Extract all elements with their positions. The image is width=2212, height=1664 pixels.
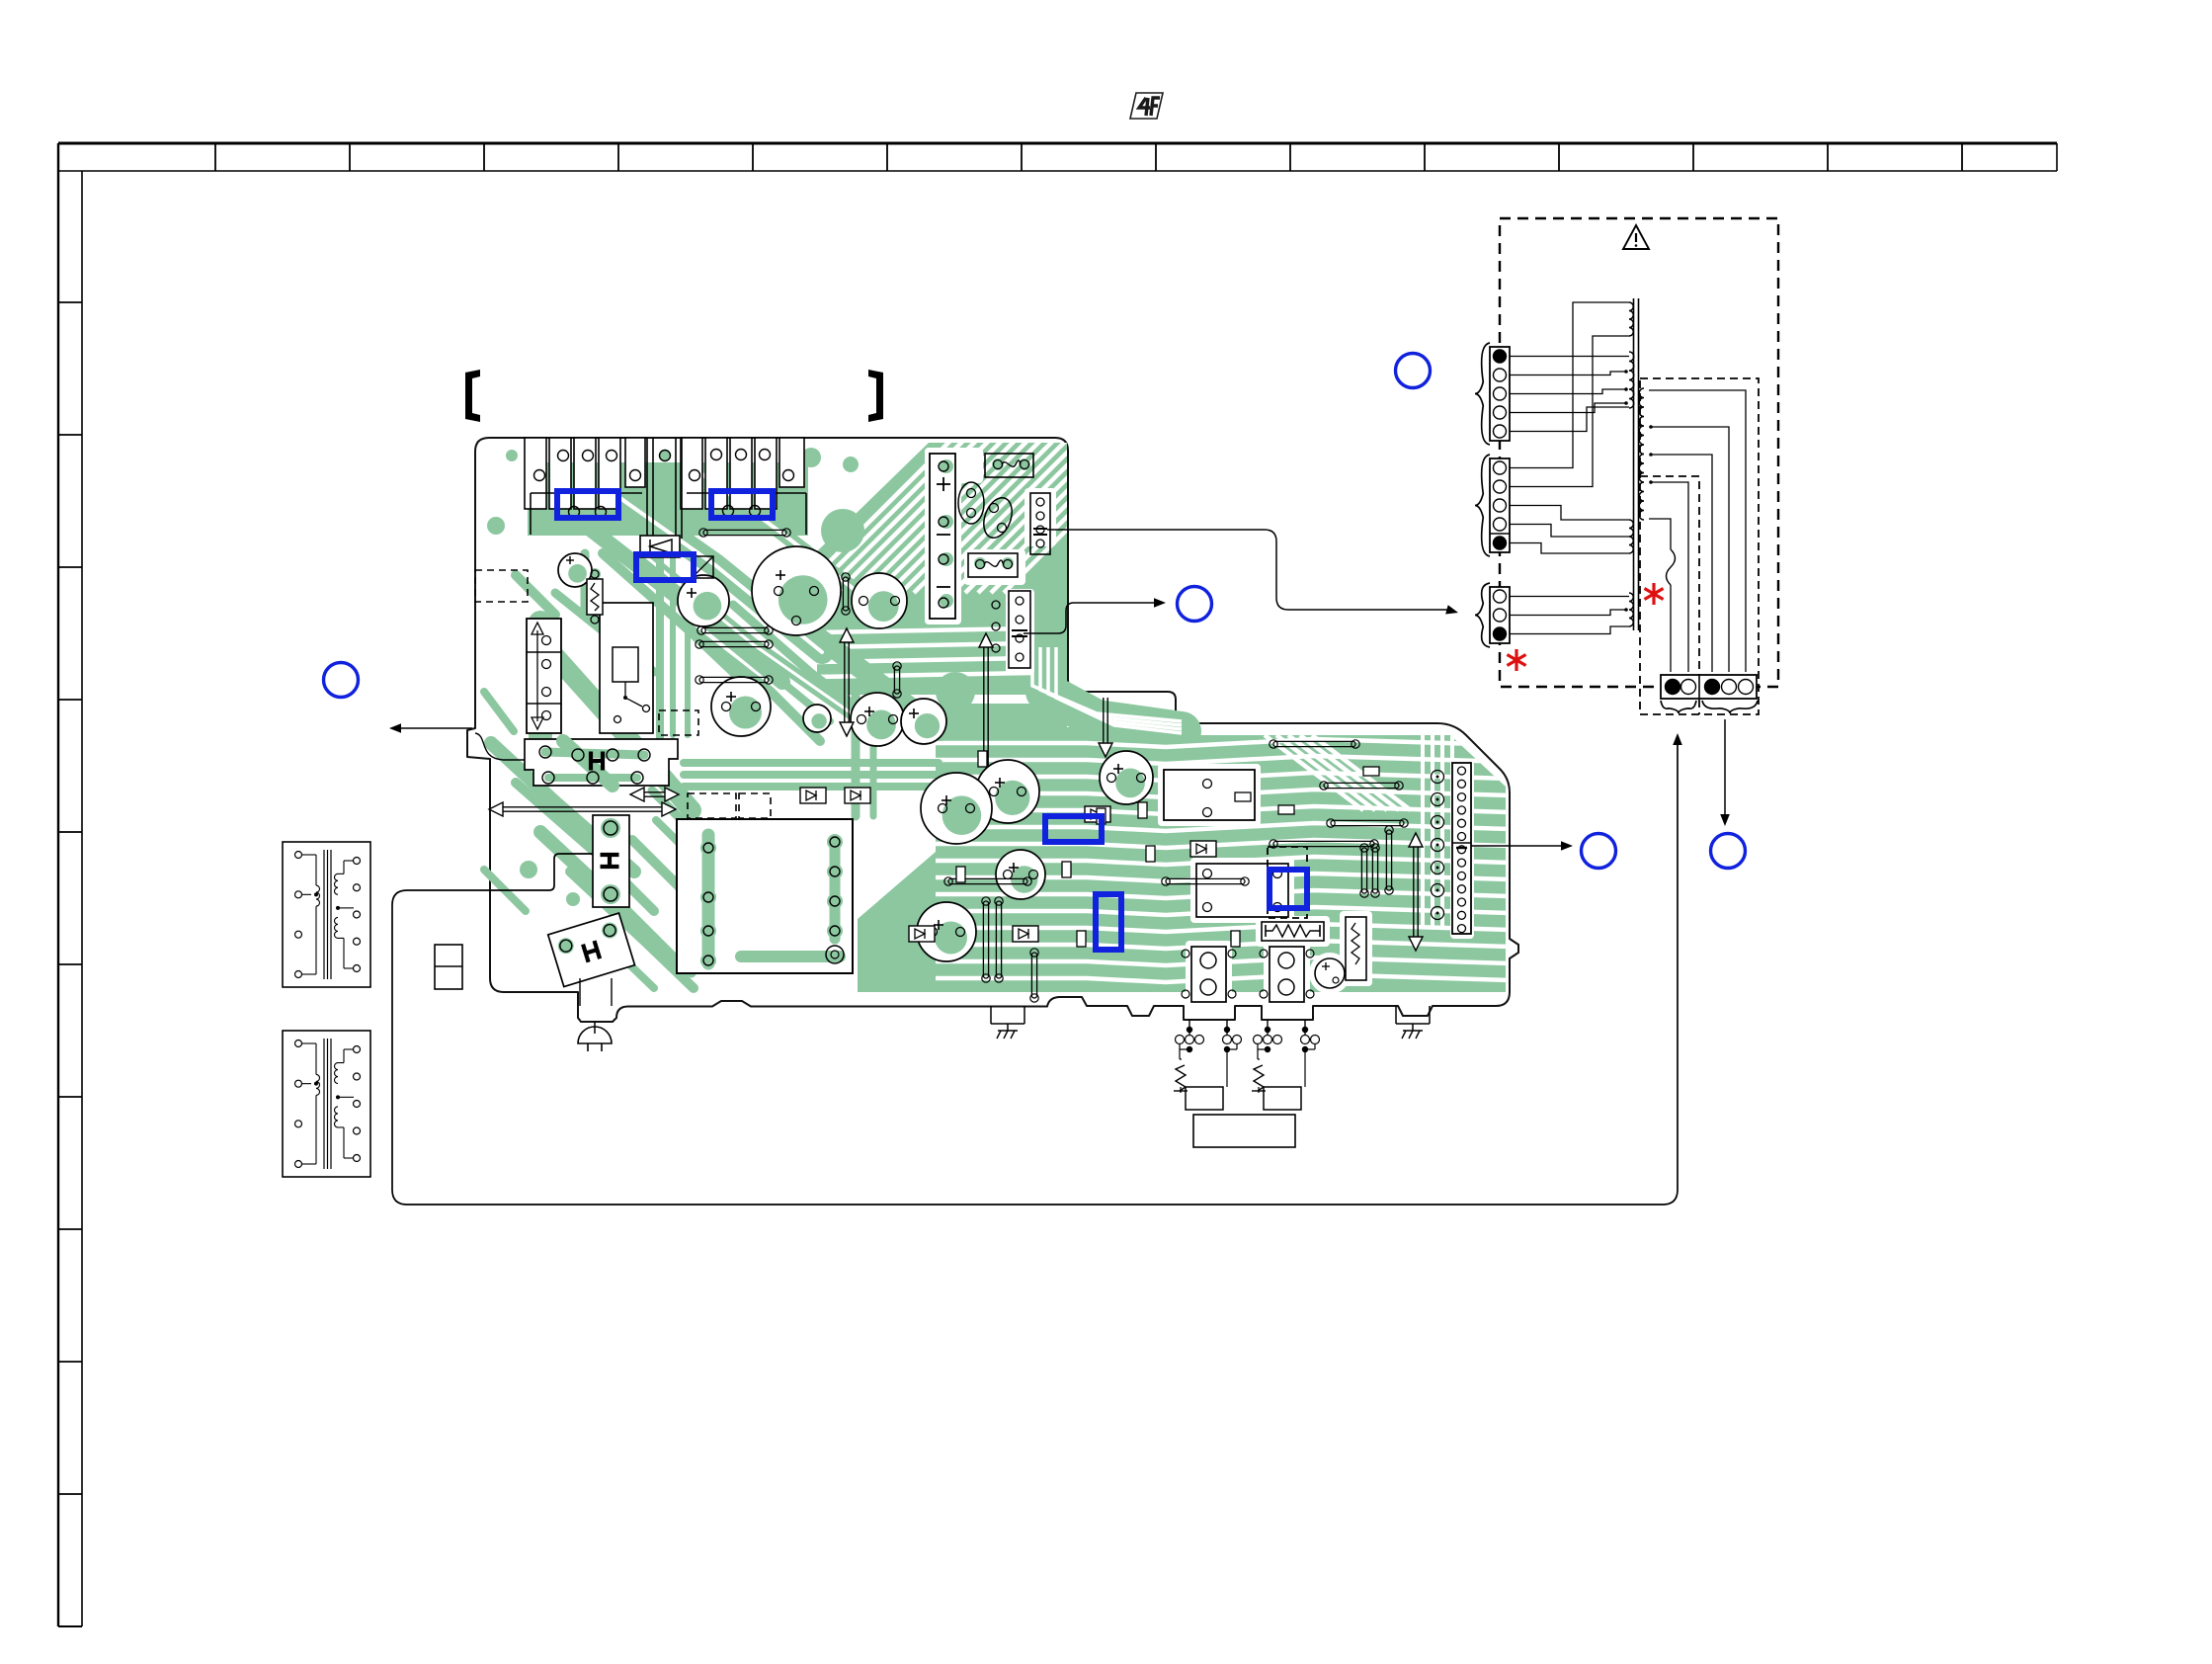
blue callout circle 4 xyxy=(1582,834,1616,869)
left lenticular bracket xyxy=(465,370,480,422)
line filter box H2 xyxy=(593,815,629,907)
capacitor polarity marks xyxy=(566,556,1123,930)
mounting detail box xyxy=(435,945,462,989)
primary wiring xyxy=(1510,302,1629,634)
IC box xyxy=(1196,864,1288,917)
white channels M2 xyxy=(798,428,1169,677)
blue callout circle 2 xyxy=(1178,587,1212,622)
white channels M4 xyxy=(936,735,1512,982)
pin header CN4 xyxy=(1432,763,1472,934)
output arrow down xyxy=(1720,719,1730,826)
blue highlight rect 6 xyxy=(1270,870,1307,908)
transformer footprint T1 xyxy=(677,819,853,973)
transformer core xyxy=(1634,298,1639,630)
wire A to mains connector xyxy=(1047,530,1458,615)
dashed rect D xyxy=(739,793,771,818)
callout wire left arrow xyxy=(389,723,472,733)
diode D2 xyxy=(692,556,713,578)
red asterisk 1 xyxy=(1644,583,1663,605)
wire jumpers xyxy=(696,529,1408,1002)
secondary dashed enclosure xyxy=(1640,378,1759,714)
primary coil 4 xyxy=(1629,593,1633,626)
primary coil 1 xyxy=(1629,302,1633,336)
headphone jack J2 contacts xyxy=(1252,1020,1320,1110)
headphone jack J1 body xyxy=(1182,947,1236,1002)
resistor R2 xyxy=(1262,922,1324,941)
transistor Q1 xyxy=(1315,958,1345,988)
green copper masses xyxy=(528,443,1506,992)
small diodes xyxy=(800,788,1216,942)
relay RY1 xyxy=(600,603,653,733)
connector CN2 strip xyxy=(1030,493,1050,554)
resistor R3 xyxy=(1346,917,1366,980)
varistor block VR1 xyxy=(527,619,561,733)
mains connector block 3 xyxy=(1475,583,1510,647)
PCB board outline xyxy=(467,438,1518,1022)
chassis ground G2 xyxy=(1396,1006,1430,1039)
jack common box xyxy=(1193,1115,1295,1147)
red asterisk 2 xyxy=(1507,649,1525,671)
double arrow A1 xyxy=(643,791,666,793)
mains connector block 1 xyxy=(1475,343,1510,445)
green trace strokes xyxy=(484,466,941,988)
output brace right triple xyxy=(1702,701,1758,713)
blue highlight rect 5 xyxy=(1096,894,1121,950)
output connector block xyxy=(1661,675,1757,699)
chassis ground G1 xyxy=(991,1006,1024,1039)
dashed rect E xyxy=(1268,847,1307,918)
wire edge to H1 xyxy=(475,733,525,760)
blue highlight rect 1 xyxy=(557,491,618,518)
primary coil 3 xyxy=(1629,520,1633,553)
line filter box H3 tilted xyxy=(548,913,635,987)
output brace left pair xyxy=(1661,701,1696,713)
oval pad jumpers xyxy=(958,482,1017,541)
blue callout circle 3 xyxy=(1396,354,1431,388)
aux transformer T2 box xyxy=(283,842,370,987)
double arrow A2 xyxy=(502,806,663,808)
double arrow A4 xyxy=(1409,833,1423,951)
heatsink HS1 xyxy=(930,454,955,619)
white channels corner xyxy=(1032,647,1182,733)
dashed rect A xyxy=(475,570,528,602)
fuse F1 xyxy=(985,454,1033,477)
aux transformer T3 box xyxy=(283,1031,370,1177)
diode D1 bridge xyxy=(640,536,680,557)
electrolytic capacitors xyxy=(558,546,1153,961)
power heatsink connector strip xyxy=(525,438,806,539)
blue callout circle 5 xyxy=(1711,834,1746,869)
loop wire to mains connector xyxy=(392,733,1682,1205)
shield box xyxy=(1164,770,1255,820)
green pads xyxy=(487,448,1030,947)
down arrow A6 xyxy=(1099,698,1112,757)
white component clearances xyxy=(925,448,1474,1008)
headphone jack J1 contacts xyxy=(1174,1020,1242,1110)
wire B arrow xyxy=(1024,598,1166,633)
page logo 4F xyxy=(1130,93,1163,119)
small passives xyxy=(956,751,1379,947)
resistor R1 xyxy=(587,570,603,624)
connector strip pads xyxy=(534,450,794,518)
blue highlight rect 2 xyxy=(711,491,773,518)
AC plug xyxy=(578,978,612,1051)
blue highlight rect 3 xyxy=(636,554,694,580)
fuse F2 xyxy=(968,553,1018,577)
right lenticular bracket xyxy=(868,370,883,422)
headphone jack J2 body xyxy=(1260,947,1314,1002)
blue highlight rect 4 xyxy=(1045,816,1102,842)
connector CN3 strip xyxy=(992,591,1030,668)
capacitor lead pads xyxy=(722,587,1146,937)
double arrow A3 xyxy=(840,628,854,736)
dashed rect B xyxy=(659,710,698,735)
warning triangle xyxy=(1623,225,1649,249)
secondary wiring xyxy=(1649,390,1746,672)
wire C arrow xyxy=(1471,841,1573,851)
primary coil 2 xyxy=(1629,352,1634,408)
mains connector block 2 xyxy=(1475,455,1510,556)
secondary coil xyxy=(1639,388,1644,520)
line filter box H1 xyxy=(525,739,678,786)
dashed rect C xyxy=(688,793,736,818)
blue callout circle 1 xyxy=(324,663,359,698)
transformer dashed enclosure xyxy=(1500,218,1778,687)
up arrow A5 xyxy=(979,633,993,766)
